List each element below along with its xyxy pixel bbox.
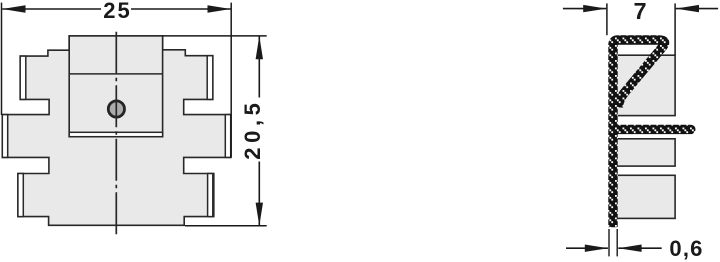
extension line right — [616, 229, 618, 256]
finger edge strip mid-right — [225, 115, 230, 158]
fin lower — [615, 175, 675, 218]
tab bottom white strip — [69, 132, 162, 136]
fin middle — [615, 139, 675, 166]
finger edge strip mid-left — [2, 115, 7, 158]
dimension line 20,5 — [258, 36, 260, 97]
finger edge strip lower-left — [18, 174, 23, 217]
extension line left — [606, 3, 608, 35]
finger edge strip upper-left — [20, 56, 26, 99]
extension line bottom — [185, 225, 267, 227]
arrowhead down — [256, 203, 263, 226]
clip cross-section: back + top fold + spring diagonal — [613, 40, 665, 227]
arrowhead left — [2, 5, 25, 12]
extension line left — [608, 229, 610, 256]
dimension line 0,6 right — [618, 247, 661, 249]
fin upper — [615, 55, 675, 115]
dimension line 25 — [2, 8, 101, 10]
arrowhead right — [208, 5, 231, 12]
tab interior line — [69, 73, 162, 75]
arrowhead left-pointing — [618, 245, 641, 252]
svg-text:7: 7 — [633, 0, 646, 24]
extension line right — [230, 3, 232, 158]
svg-text:0,6: 0,6 — [669, 236, 703, 261]
finger edge strip lower-right — [208, 174, 213, 217]
solder pin arm cross-section — [613, 125, 691, 134]
finger edge strip upper-right — [207, 56, 213, 100]
dimension line 0,6 left — [566, 247, 608, 249]
arrowhead left-pointing — [676, 5, 699, 12]
extension line top — [163, 35, 267, 37]
dimension line 7 right — [676, 8, 718, 10]
heatsink body silhouette — [2, 36, 230, 225]
vertical centerline — [115, 32, 117, 236]
transistor mounting tab — [69, 36, 162, 137]
svg-text:20,5: 20,5 — [240, 98, 265, 159]
extension line left — [1, 3, 3, 115]
extension line right — [674, 3, 676, 55]
dimension line 7 left — [563, 8, 606, 10]
arrowhead right-pointing — [585, 245, 608, 252]
mounting hole — [108, 101, 124, 117]
arrowhead right-pointing — [583, 5, 606, 12]
arrowhead up — [256, 36, 263, 59]
svg-text:25: 25 — [103, 0, 131, 23]
